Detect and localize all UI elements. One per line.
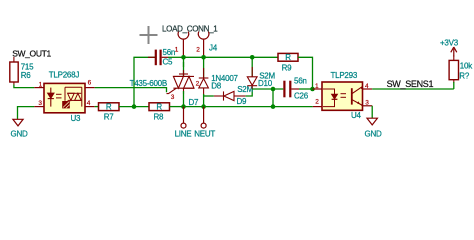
power symbol NEUT <box>201 107 206 129</box>
svg-text:1: 1 <box>175 47 179 54</box>
svg-text:2: 2 <box>196 81 200 88</box>
svg-text:SW_SENS1: SW_SENS1 <box>387 79 434 89</box>
pin 1 <box>34 87 44 89</box>
svg-text:3: 3 <box>365 99 369 106</box>
svg-text:U3: U3 <box>71 114 82 123</box>
U4 phototransistor <box>352 87 362 106</box>
resistor R8 <box>149 103 170 112</box>
wire top rail J4.2 to D10 <box>204 56 253 58</box>
wire R8 to D7 bottom <box>170 106 184 108</box>
wire U3 pin3 to GND <box>18 107 35 120</box>
svg-text:3: 3 <box>38 100 42 107</box>
wire D7 bottom to rail <box>183 91 185 107</box>
wire vertical junction to top rail <box>134 57 155 106</box>
svg-text:J4: J4 <box>209 43 218 52</box>
resistor R7 <box>95 103 119 112</box>
svg-text:S2M: S2M <box>237 85 253 94</box>
wire C26 to U4 pin1 <box>299 88 313 90</box>
diode D10 S2M <box>247 57 257 89</box>
svg-text:GND: GND <box>364 130 382 139</box>
svg-text:2: 2 <box>315 99 319 106</box>
svg-text:R?: R? <box>459 72 470 81</box>
capacitor C5 <box>148 50 168 66</box>
pin 3 <box>34 106 44 108</box>
wire top rail J4.1 to J4.2 <box>184 56 204 58</box>
svg-text:U4: U4 <box>351 111 362 120</box>
wire U3 pin6 to D7 gate <box>95 88 167 93</box>
junction between R7 and R8 <box>132 104 137 109</box>
svg-text:56n: 56n <box>163 48 176 57</box>
wire D8 vert to D9 <box>204 95 214 97</box>
svg-text:NEUT: NEUT <box>194 129 215 138</box>
svg-text:4: 4 <box>87 100 91 107</box>
svg-text:R8: R8 <box>154 113 165 122</box>
junction J4 pin2 / D8 <box>201 55 206 60</box>
pin 2 <box>313 106 322 108</box>
junction D7 bottom rail <box>181 104 186 109</box>
wire U4 pin3 to GND <box>371 106 373 118</box>
svg-text:GND: GND <box>10 130 28 139</box>
U3 internal arrows <box>56 94 62 98</box>
pin 6 <box>85 87 95 89</box>
svg-text:D9: D9 <box>237 97 248 106</box>
connector J4 pin 1 <box>178 32 189 58</box>
wire vertical C26 to bottom rail <box>272 89 274 107</box>
connector J4 pin 2 <box>198 32 209 58</box>
diode D9 S2M <box>214 91 246 100</box>
U3 internal LED <box>48 88 54 107</box>
capacitor C26 <box>273 81 299 98</box>
svg-text:6: 6 <box>88 80 92 87</box>
wire U4 pin4 to R pullup (SW_SENS1 net) <box>372 88 454 90</box>
svg-text:LINE: LINE <box>175 129 192 138</box>
resistor R6 <box>10 57 18 85</box>
svg-text:TLP293: TLP293 <box>331 71 358 80</box>
resistor R? pullup <box>449 56 458 84</box>
power symbol LINE <box>181 107 186 129</box>
svg-text:1: 1 <box>315 83 319 90</box>
junction C26 left vertical <box>271 87 276 92</box>
junction U4 pin1 <box>310 87 315 92</box>
svg-text:SW_OUT1: SW_OUT1 <box>12 49 51 59</box>
svg-text:TLP268J: TLP268J <box>49 71 80 80</box>
diode D8 1N4007 <box>199 57 209 96</box>
U3 internal triac <box>65 87 82 106</box>
op-to U3 optocoupler TLP268J <box>34 83 94 112</box>
svg-text:4: 4 <box>365 83 369 90</box>
optocoupler U4 TLP293 <box>313 82 373 110</box>
pin 1 <box>313 88 323 90</box>
wire top rail D10 to R9 <box>252 56 278 58</box>
svg-text:C5: C5 <box>163 58 174 67</box>
svg-text:R6: R6 <box>21 71 32 80</box>
wire rail to U4 pin2 <box>273 106 313 108</box>
svg-text:R7: R7 <box>104 113 115 122</box>
wire C5 to J4 pin1 junction <box>168 56 184 58</box>
svg-text:2: 2 <box>196 46 200 53</box>
pin 3 <box>363 105 373 107</box>
pin 4 <box>363 88 373 90</box>
wire D8 to rail <box>203 94 205 107</box>
svg-text:+3V3: +3V3 <box>440 39 459 48</box>
junction D10 top <box>250 55 255 60</box>
svg-text:T435-600B: T435-600B <box>130 79 167 88</box>
wire R9 to U4 pin1 <box>298 57 313 89</box>
wire rail D7 to D8 <box>184 106 204 108</box>
U3 internal zero-cross block <box>62 101 70 108</box>
svg-text:D10: D10 <box>258 79 273 88</box>
svg-text:C26: C26 <box>294 92 309 101</box>
svg-text:10k: 10k <box>460 61 473 70</box>
gray cross marker <box>140 26 158 44</box>
wire D9 to D10 bottom <box>246 89 253 96</box>
U4 internal LED <box>323 89 337 107</box>
junction J4 pin1 / D7 <box>181 55 186 60</box>
svg-text:1: 1 <box>39 81 43 88</box>
power symbol +3V3 <box>451 47 457 57</box>
svg-text:56n: 56n <box>294 77 307 86</box>
D7 gate <box>167 88 177 93</box>
U4 internal arrows <box>341 94 347 98</box>
pin 4 <box>85 106 95 108</box>
wire R to wire <box>453 82 455 89</box>
wire D10 bottom to C26 <box>252 88 283 90</box>
svg-text:R: R <box>106 103 112 112</box>
junction D8 bottom rail <box>201 104 206 109</box>
ground GND right <box>367 118 377 125</box>
svg-text:LOAD_CONN_1: LOAD_CONN_1 <box>162 25 218 34</box>
ground GND left <box>13 119 23 126</box>
svg-text:R: R <box>156 103 162 112</box>
svg-text:3: 3 <box>171 94 175 101</box>
svg-text:R9: R9 <box>282 64 293 73</box>
svg-text:D8: D8 <box>211 82 222 91</box>
resistor R9 <box>278 53 298 62</box>
junction vertical bottom rail <box>271 104 276 109</box>
svg-text:D7: D7 <box>189 98 200 107</box>
wire R6 to U3 pin1 <box>14 85 34 88</box>
triac D7 <box>167 57 195 94</box>
svg-text:R: R <box>285 53 291 62</box>
wire R7 to R8 <box>119 106 149 108</box>
wire rail D8 to vertical <box>204 106 273 108</box>
